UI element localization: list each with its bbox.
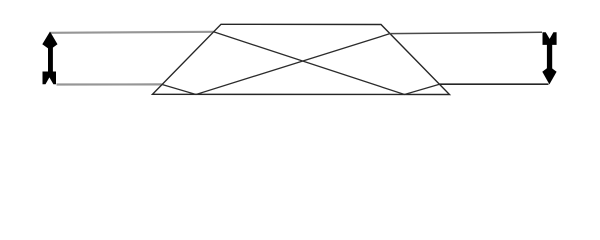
wire: top-right sheet surface rail (390, 32, 543, 33)
wire: interface diagonal from bottom-left into joint (162, 34, 390, 95)
wire: bottom-right sheet surface rail (440, 83, 549, 85)
node: left thickness arrow (points up) (42, 32, 57, 85)
node: trapezoid joint outline (153, 24, 450, 94)
wire: top-left sheet surface rail (51, 32, 214, 33)
wire: bottom-left sheet surface rail (57, 83, 162, 85)
node: right thickness arrow (points down) (542, 32, 556, 84)
wire: interface diagonal from top-left into joint (214, 32, 440, 95)
